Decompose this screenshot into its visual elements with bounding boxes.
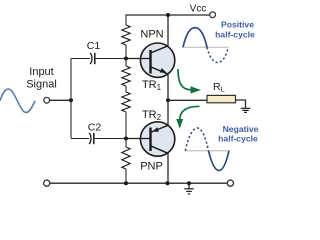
bottom left terminal bbox=[44, 180, 50, 186]
svg-text:C1: C1 bbox=[87, 40, 101, 52]
wire node A to C1 bbox=[71, 58, 90, 60]
resistor R1 (Vcc to TR1 base) bbox=[122, 15, 130, 59]
node B junction (TR1 base) bbox=[124, 57, 128, 61]
bottom right terminal bbox=[227, 180, 233, 186]
negative half-cycle waveform bbox=[185, 128, 229, 171]
svg-text:half-cycle: half-cycle bbox=[218, 134, 258, 144]
wire input vertical bbox=[70, 59, 72, 139]
input sine wave icon bbox=[0, 89, 35, 112]
Vcc rail wire bbox=[125, 14, 209, 16]
ground 2 (bottom rail) bbox=[184, 183, 193, 194]
node A junction bbox=[69, 98, 73, 102]
node D output junction bbox=[166, 98, 170, 102]
wire input terminal to node A bbox=[50, 99, 71, 101]
svg-text:Signal: Signal bbox=[26, 79, 57, 91]
wire C2 to node C bbox=[94, 138, 126, 140]
positive half-cycle waveform axis bbox=[182, 46, 229, 48]
svg-text:half-cycle: half-cycle bbox=[215, 30, 255, 40]
svg-text:Input: Input bbox=[29, 66, 53, 78]
Vcc terminal bbox=[210, 12, 216, 18]
svg-text:PNP: PNP bbox=[140, 161, 163, 173]
svg-text:C2: C2 bbox=[88, 122, 102, 134]
ground 2 junction bbox=[187, 181, 191, 185]
current arrow TR1 to RL (green) bbox=[178, 69, 201, 94]
resistor R2 (bias upper) bbox=[122, 59, 130, 93]
node C junction (TR2 base) bbox=[124, 137, 128, 141]
positive half-cycle waveform bbox=[183, 28, 228, 63]
junction TR2 collector to 0V bbox=[166, 181, 170, 185]
wire RL to ground 1 bbox=[236, 100, 246, 108]
transistor TR2 (PNP) bbox=[126, 100, 175, 183]
bottom 0V rail wire bbox=[50, 182, 227, 184]
svg-text:NPN: NPN bbox=[140, 29, 163, 41]
current arrow output to TR2 (green) bbox=[176, 106, 199, 128]
svg-text:Negative: Negative bbox=[223, 124, 259, 134]
resistor R4 (TR2 base to 0V) bbox=[122, 139, 130, 184]
svg-text:Positive: Positive bbox=[221, 20, 254, 30]
wire node A to C2 bbox=[71, 138, 89, 140]
capacitor C2 bbox=[89, 133, 94, 144]
negative half-cycle waveform axis bbox=[185, 150, 230, 152]
capacitor C1 bbox=[90, 53, 95, 64]
svg-text:Vcc: Vcc bbox=[190, 4, 207, 15]
junction bias chain to 0V bbox=[124, 181, 128, 185]
input terminal bbox=[44, 97, 50, 103]
wire output node to RL bbox=[168, 99, 207, 101]
ground 1 (after RL) bbox=[241, 108, 251, 112]
resistor RL (load) bbox=[207, 95, 236, 102]
node dot Vcc/collector junction bbox=[166, 13, 170, 17]
transistor TR1 (NPN) bbox=[126, 15, 175, 100]
wire C1 to node B bbox=[95, 58, 126, 60]
resistor R3 (bias lower) bbox=[122, 92, 130, 139]
